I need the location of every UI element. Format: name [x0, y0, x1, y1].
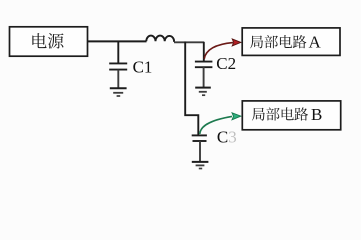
green arrow: C3 node to local circuit B	[200, 113, 241, 134]
wire: power output to inductor	[87, 40, 147, 42]
ground below C2	[195, 88, 211, 96]
inductor (3 loops)	[146, 36, 174, 42]
wire: C1 to ground	[117, 70, 119, 88]
wire: inductor to C2 node	[174, 41, 204, 43]
svg-text:C2: C2	[216, 54, 236, 73]
svg-text:C3: C3	[217, 128, 237, 147]
svg-text:B: B	[311, 105, 322, 124]
capacitor C2	[195, 62, 213, 68]
label C3 (3 faded)	[217, 128, 237, 147]
label C2	[216, 54, 236, 73]
svg-text:C1: C1	[133, 58, 153, 77]
power source box 电源	[10, 27, 88, 56]
local circuit B box 局部电路B	[242, 101, 340, 130]
red arrow: C2 node to local circuit A	[204, 39, 241, 59]
svg-text:A: A	[309, 33, 322, 52]
wire: stub down to C1	[117, 41, 119, 63]
wire: C2 to ground	[203, 67, 205, 87]
ground below C1	[110, 88, 127, 96]
capacitor C3	[192, 135, 207, 141]
local circuit A box 局部电路A	[242, 28, 340, 56]
wire: C3 to ground	[199, 141, 201, 161]
wire: vertical branch down from main line	[185, 42, 198, 135]
wire: stub down to C2	[203, 42, 205, 61]
capacitor C1	[109, 63, 127, 69]
ground below C3	[192, 162, 209, 169]
label C1	[133, 58, 153, 77]
